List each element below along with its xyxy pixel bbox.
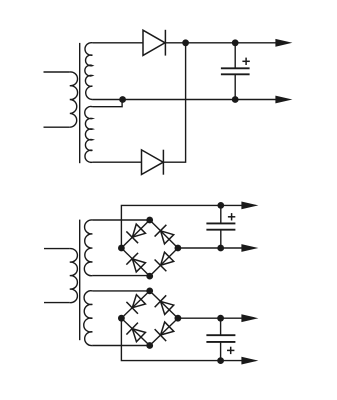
arrow output middle rail <box>275 96 292 104</box>
wire bottom lead from secondary to diode D2 <box>92 161 141 163</box>
arrow output bridge 2 negative <box>241 314 258 322</box>
wire top rail from secondary to diode D1 <box>92 42 143 44</box>
bridge 2 diode top-right <box>155 295 175 315</box>
wire bridge 1 negative output via right vertex <box>178 247 242 249</box>
transformer T1 primary winding <box>44 72 78 127</box>
bridge 2 diode top-left <box>126 293 146 313</box>
transformer T1 core <box>79 43 81 163</box>
node bridge 2 top vertex <box>146 288 153 295</box>
wire secondary 2 top lead to bridge 2 top <box>92 290 149 292</box>
wire secondary 2 bottom lead to bridge 2 bottom <box>92 345 149 347</box>
transformer T2 secondary 1 winding <box>84 220 92 276</box>
node A junction after D1 <box>182 39 189 46</box>
node bridge 1 right vertex <box>175 245 182 252</box>
wire top rail from D1 to arrow <box>165 42 276 44</box>
bridge 1 diode bottom-left <box>126 253 146 273</box>
arrow output bridge 2 positive <box>241 357 258 365</box>
wire secondary 1 top lead to bridge 1 top <box>92 219 149 221</box>
node F above capacitor C3 <box>217 315 224 322</box>
plus label of C2 <box>228 213 235 220</box>
bridge 2 diode bottom-left <box>126 323 146 343</box>
node bridge 1 top vertex <box>146 217 153 224</box>
transformer T2 secondary 2 winding <box>84 291 93 346</box>
wire from node D down to capacitor C2 <box>220 205 222 223</box>
wire from capacitor C2 down to node E <box>220 230 222 248</box>
arrow output bridge 1 positive <box>241 202 258 210</box>
node D above capacitor C2 <box>217 202 224 209</box>
node bridge 2 left vertex <box>118 315 125 322</box>
wire bridge 2 positive output via left vertex <box>121 318 241 360</box>
wire bridge 2 negative output via right vertex <box>178 317 242 319</box>
diode D1 <box>143 30 165 56</box>
node G below capacitor C3 <box>217 357 224 364</box>
wire center-tap leads <box>92 100 122 107</box>
node C below capacitor C1 <box>232 96 239 103</box>
node B above capacitor C1 <box>232 39 239 46</box>
node CT center tap <box>119 96 126 103</box>
node bridge 1 left vertex <box>118 245 125 252</box>
transformer T1 secondary upper winding <box>85 43 93 100</box>
node E below capacitor C2 <box>217 245 224 252</box>
bridge 1 diamond wires <box>121 220 177 276</box>
capacitor C2 <box>206 223 235 229</box>
plus label of C3 <box>227 347 234 354</box>
node bridge 2 bottom vertex <box>146 342 153 349</box>
capacitor C3 <box>206 335 235 342</box>
wire from node F down to capacitor C3 <box>220 318 222 335</box>
wire from node B down to capacitor C1 <box>234 43 236 69</box>
diode D2 <box>142 150 164 175</box>
transformer T1 secondary lower winding <box>85 106 93 162</box>
wire bridge 1 positive output via left vertex <box>121 205 241 248</box>
bridge 2 diamond wires <box>121 291 177 346</box>
node bridge 2 right vertex <box>175 315 182 322</box>
wire from capacitor C1 down to node C <box>234 74 236 99</box>
wire secondary 1 bottom lead to bridge 1 bottom <box>92 275 149 277</box>
bridge 1 diode top-right <box>155 225 175 245</box>
wire middle rail <box>123 99 276 101</box>
transformer T2 primary winding <box>44 249 77 303</box>
arrow output bridge 1 negative <box>241 244 258 252</box>
node bridge 1 bottom vertex <box>146 273 153 280</box>
capacitor C1 <box>221 68 250 74</box>
bridge 1 diode bottom-right <box>155 251 175 271</box>
bridge 1 diode top-left <box>126 223 146 243</box>
arrow output top rail <box>275 39 292 47</box>
plus label of C1 <box>242 58 249 65</box>
wire from D2 up to node A <box>163 43 185 162</box>
transformer T2 core <box>79 220 81 341</box>
bridge 2 diode bottom-right <box>155 321 175 341</box>
wire from capacitor C3 down to node G <box>220 342 222 361</box>
